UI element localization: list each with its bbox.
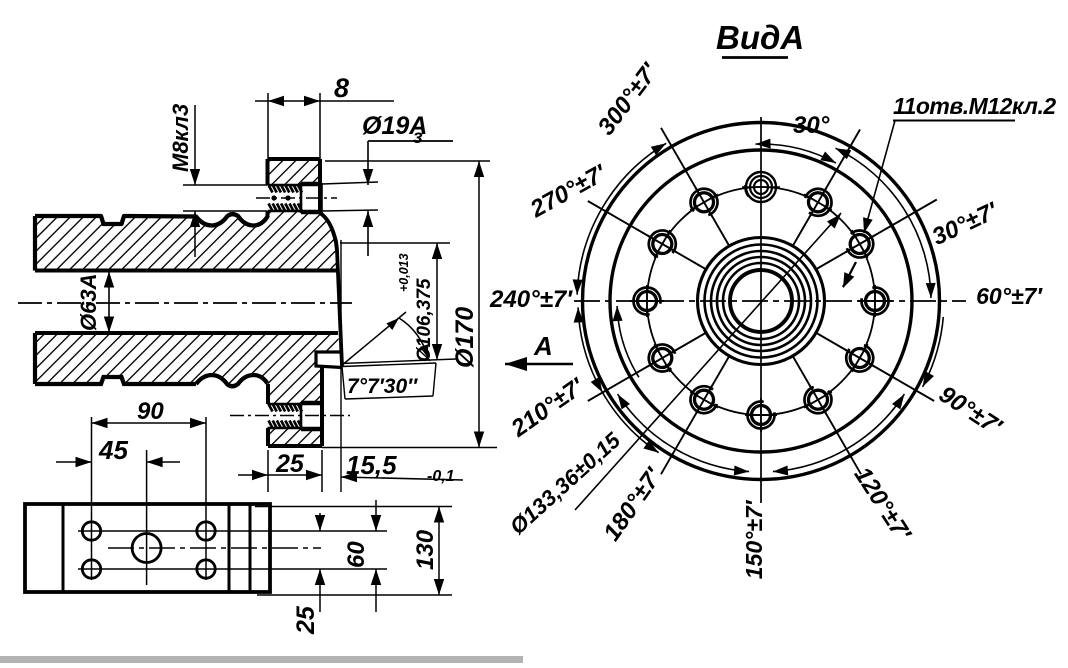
svg-text:ВидА: ВидА bbox=[716, 19, 804, 56]
svg-text:-0,1: -0,1 bbox=[427, 468, 455, 485]
svg-text:30°: 30° bbox=[793, 112, 830, 139]
svg-text:з: з bbox=[413, 127, 423, 148]
svg-text:25: 25 bbox=[292, 605, 320, 635]
svg-text:60°±7′: 60°±7′ bbox=[976, 283, 1043, 309]
svg-text:45: 45 bbox=[98, 435, 128, 465]
svg-text:90: 90 bbox=[137, 398, 164, 425]
svg-text:М8кл3: М8кл3 bbox=[168, 104, 193, 172]
svg-text:240°±7′: 240°±7′ bbox=[489, 286, 573, 313]
svg-text:150°±7′: 150°±7′ bbox=[741, 499, 767, 579]
svg-text:130: 130 bbox=[412, 529, 439, 570]
svg-text:А: А bbox=[533, 331, 553, 361]
svg-text:11отв.М12кл.2: 11отв.М12кл.2 bbox=[893, 93, 1056, 119]
svg-text:60: 60 bbox=[343, 541, 370, 568]
svg-text:8: 8 bbox=[334, 73, 349, 103]
svg-text:7°7′30″: 7°7′30″ bbox=[347, 375, 418, 398]
svg-text:Ø63А: Ø63А bbox=[76, 274, 101, 331]
svg-text:+0,013: +0,013 bbox=[397, 253, 411, 292]
svg-text:15,5: 15,5 bbox=[346, 450, 397, 480]
svg-text:25: 25 bbox=[275, 450, 305, 478]
